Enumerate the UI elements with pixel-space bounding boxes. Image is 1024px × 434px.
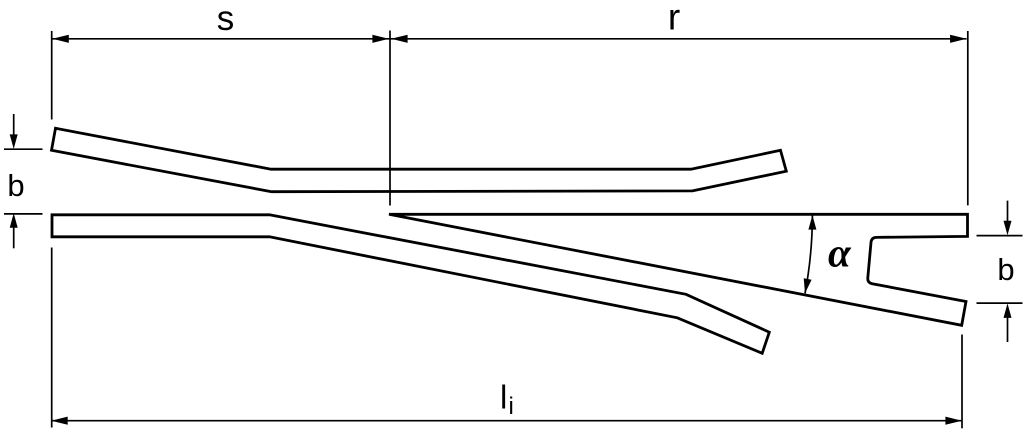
extension line left (x=51.7, upper and lower segments) [51,31,53,120]
svg-text:b: b [997,252,1014,287]
right b up arrow [1007,311,1009,342]
right b dimension ticks [977,235,1023,237]
right b down arrow [1007,201,1009,227]
upper switch blade (tongue rail, bent for diverging route) [52,128,787,191]
stock rail wedge with joint notch (straight top edge, diverging gauge line, notched rail end) [389,214,968,325]
dimension line s (left) and r (right) along y=38.8 [52,38,966,40]
extension line centre at s/r boundary (x=390) [389,31,391,206]
extension line bottom right (x=962) [961,335,963,429]
left b up arrow [13,221,15,248]
svg-text:s: s [217,0,235,38]
extension line right (x=967.8) [967,31,969,205]
left b down arrow [13,114,15,141]
dimension line l_i along y=420.7 [51,420,962,422]
svg-text:i: i [509,393,514,420]
svg-text:α: α [828,230,852,276]
svg-text:l: l [500,379,507,416]
angle dimension arc alpha (centred on blade tip) [805,215,812,293]
svg-text:b: b [7,168,24,203]
left b dimension ticks [4,148,43,150]
svg-text:r: r [668,0,680,38]
lower switch blade (tongue rail, straight route, shown open) [52,215,769,353]
